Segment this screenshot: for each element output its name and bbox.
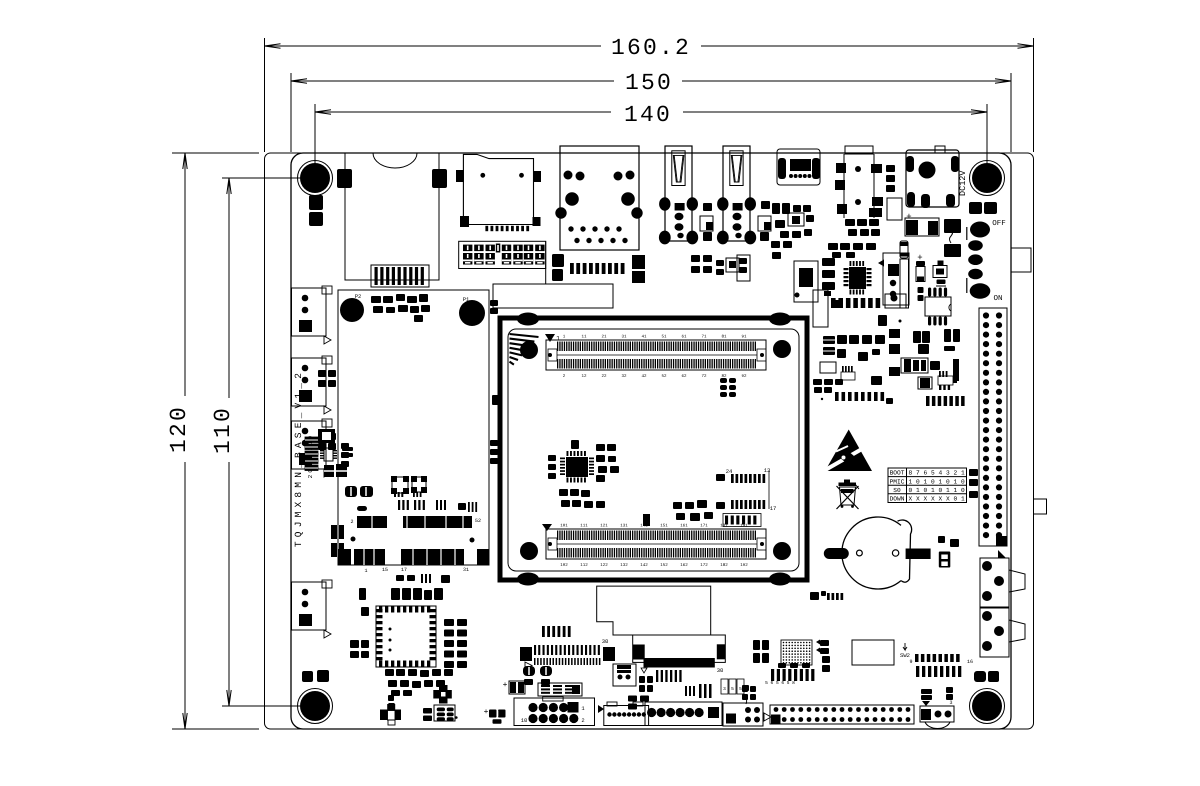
svg-text:5 6 5 6 5 8: 5 6 5 6 5 8: [765, 680, 795, 686]
pads left below micro-USB: [771, 241, 780, 248]
svg-text:0: 0: [916, 478, 920, 485]
svg-text:1: 1: [931, 487, 935, 494]
connector 6-pin bottom: [604, 706, 649, 726]
BGA U9: [781, 640, 812, 665]
svg-text:142: 142: [640, 563, 648, 568]
pads below mounting hole top-left: [309, 195, 323, 210]
pin header J21 2x17: [770, 705, 914, 724]
pads below ethernet jack: [552, 254, 564, 267]
pads above connector: [742, 686, 748, 692]
audio jack right J31: [980, 608, 1009, 657]
round pads below FFC: [523, 666, 535, 676]
WEEE bin symbol: [840, 487, 856, 505]
svg-text:171: 171: [700, 524, 708, 529]
headphone jack footprint: [845, 146, 873, 154]
svg-text:62: 62: [681, 374, 687, 379]
svg-text:11: 11: [581, 335, 587, 340]
components below headphone jack: [845, 219, 855, 226]
fiducial dots: [351, 537, 356, 542]
block with bars: [538, 683, 582, 696]
connector J14 left: [292, 582, 327, 630]
svg-text:0: 0: [931, 478, 935, 485]
battery pad left: [824, 548, 849, 559]
round pads pair: [345, 486, 357, 497]
svg-text:182: 182: [720, 563, 728, 568]
dimension 150 extension lines: [290, 73, 292, 152]
svg-text:S0: S0: [893, 487, 901, 494]
SOM corner hatch: [510, 334, 539, 337]
connector 7-pin bottom: [645, 702, 722, 726]
dimension 140 extension lines: [314, 104, 316, 172]
svg-text:172: 172: [700, 563, 708, 568]
battery pad right: [906, 549, 931, 560]
svg-text:ON: ON: [993, 294, 1002, 303]
svg-text:24: 24: [726, 468, 733, 475]
comb groups FFFF: [656, 670, 658, 682]
SOM pin1 marker: [545, 334, 555, 342]
LVDS pin comb: [644, 658, 715, 668]
pads above speaker: [921, 689, 932, 694]
svg-text:52: 52: [661, 374, 667, 379]
tall white rect near SOM: [813, 290, 828, 327]
ethernet PHY U2: [849, 267, 866, 289]
pad groups HH: [398, 500, 400, 510]
ESD warning triangle: [825, 430, 872, 472]
comb row right of SOM top: [831, 298, 836, 308]
dimension 150 line: [291, 80, 614, 82]
SOM small pad: [643, 514, 650, 526]
svg-text:181: 181: [720, 524, 728, 529]
svg-text:3: 3: [949, 700, 952, 706]
svg-text:21: 21: [601, 335, 607, 340]
pads 2x2 left of block: [423, 708, 432, 714]
vias column: [889, 329, 900, 338]
pads below B2B top: [720, 378, 727, 383]
B2B connector X2 bottom: [546, 529, 766, 559]
connector J13 left: [292, 421, 327, 469]
SOM passives right of CPU: [596, 444, 605, 451]
svg-text:152: 152: [660, 563, 668, 568]
pads below module fingers: [396, 575, 404, 581]
pads right of QFP U8: [444, 619, 454, 626]
dimension 140 line: [315, 111, 611, 113]
svg-text:5: 5: [739, 687, 742, 692]
SOM CPU U10: [566, 457, 588, 477]
B2B X2 pin marker: [542, 524, 552, 531]
svg-text:31: 31: [621, 335, 627, 340]
card edge fingers upper: [357, 516, 386, 528]
passives cluster below USB J3: [691, 255, 700, 262]
svg-text:0: 0: [954, 496, 958, 503]
components right of battery: [938, 536, 945, 543]
svg-text:102: 102: [560, 563, 568, 568]
mini-PCIe top passives: [371, 296, 381, 303]
svg-text:192: 192: [740, 563, 748, 568]
standoff P2: [340, 298, 364, 322]
svg-text:0: 0: [961, 478, 965, 485]
USB connector J3 body: [723, 146, 750, 241]
pads left column bottom: [742, 685, 749, 691]
pads right of SOM: [490, 300, 498, 306]
DIP switch SW2 pads: [915, 654, 919, 662]
SOM mounting holes: [520, 341, 538, 359]
regulator block: [901, 358, 928, 373]
svg-text:DC12V: DC12V: [958, 170, 968, 196]
pads right of U7: [342, 447, 353, 451]
regulator U11: [918, 377, 932, 389]
QFP U8: [376, 606, 436, 667]
comb row below: [926, 396, 930, 406]
svg-text:7: 7: [916, 470, 920, 477]
SOM passives bottom middle: [673, 502, 682, 509]
USB connector J3 pads: [717, 197, 728, 210]
svg-text:0: 0: [946, 478, 950, 485]
pads left of BGA: [753, 640, 760, 650]
svg-text:0: 0: [924, 487, 928, 494]
svg-text:31: 31: [463, 567, 469, 573]
svg-text:+: +: [503, 681, 508, 690]
pads left of QFP U8: [350, 640, 359, 648]
dimension 120 line: [184, 153, 186, 396]
audio jack J1 pin comb: [371, 265, 429, 287]
pads above QFP U8: [391, 588, 400, 600]
svg-text:P1: P1: [463, 296, 470, 303]
components right of USB J2: [703, 203, 712, 211]
svg-text:X: X: [931, 496, 935, 503]
svg-text:1: 1: [954, 487, 958, 494]
voltage label boxes: [721, 679, 728, 694]
svg-text:51: 51: [661, 335, 667, 340]
svg-text:2: 2: [350, 519, 353, 525]
svg-text:1: 1: [909, 478, 913, 485]
pads right of SW2: [974, 671, 986, 682]
svg-text:61: 61: [681, 335, 687, 340]
svg-text:15: 15: [382, 567, 388, 573]
caps pair: [913, 331, 921, 343]
ethernet jack RJ45 body: [560, 146, 639, 250]
dimension 120 extension lines: [172, 152, 259, 154]
passives above PHY: [828, 243, 838, 250]
standoff P1: [459, 300, 485, 326]
svg-text:151: 151: [660, 524, 668, 529]
pads right of BGA: [820, 640, 829, 646]
svg-text:32: 32: [621, 374, 627, 379]
svg-text:30: 30: [602, 638, 609, 645]
svg-text:12: 12: [581, 374, 587, 379]
dimension 160.2 line: [265, 45, 602, 47]
right edge tab: [1034, 499, 1047, 514]
big plus cap: [439, 685, 448, 704]
power switch SW1: [966, 227, 968, 240]
svg-text:22: 22: [601, 374, 607, 379]
svg-text:140: 140: [624, 102, 672, 128]
SOM passives below CPU: [559, 489, 568, 496]
svg-text:2: 2: [581, 717, 584, 724]
svg-text:1: 1: [556, 335, 560, 342]
svg-text:42: 42: [641, 374, 647, 379]
pads below BGA: [778, 663, 786, 668]
svg-text:9: 9: [909, 659, 912, 665]
svg-text:81: 81: [721, 335, 727, 340]
svg-text:X: X: [924, 496, 928, 503]
mounting hole top-left: [300, 163, 330, 193]
mini-PCIe module outline: [338, 290, 489, 565]
svg-text:4: 4: [939, 470, 943, 477]
svg-text:17: 17: [770, 505, 777, 512]
svg-text:0: 0: [961, 487, 965, 494]
svg-text:X: X: [909, 496, 913, 503]
micro-SD card socket: [463, 154, 533, 224]
LVDS connector body: [597, 586, 711, 635]
small connector with pad: [885, 294, 906, 308]
mounting hole bottom-left: [300, 691, 330, 721]
svg-text:DOWN: DOWN: [890, 496, 905, 503]
svg-text:110: 110: [210, 406, 236, 454]
cluster pads B: [820, 362, 836, 373]
cap left of block: [509, 681, 525, 694]
micro-USB connector body: [777, 149, 820, 185]
header J20 2x5: [514, 698, 595, 726]
audio jack J1 body: [345, 153, 439, 280]
dimension 160.2 extension lines: [264, 38, 266, 152]
SOM module thick frame: [500, 318, 807, 580]
svg-text:1: 1: [916, 487, 920, 494]
audio jack J1 tabs: [337, 169, 352, 188]
svg-text:0: 0: [939, 487, 943, 494]
pads below connector J14: [302, 671, 313, 682]
svg-text:5: 5: [931, 470, 935, 477]
svg-text:+: +: [906, 212, 911, 222]
boot mode table: [888, 468, 967, 503]
svg-text:3: 3: [946, 470, 950, 477]
power connector cross: [380, 710, 388, 721]
svg-text:191: 191: [740, 524, 748, 529]
connector block below micro-SD: [459, 241, 546, 268]
audio jack right J30: [980, 558, 1009, 607]
pads above 7-pin connector: [628, 696, 637, 702]
svg-text:X: X: [946, 496, 950, 503]
svg-text:41: 41: [641, 335, 647, 340]
speaker: [920, 706, 954, 722]
comb stack: [305, 437, 318, 443]
svg-text:141: 141: [640, 524, 648, 529]
svg-text:121: 121: [600, 524, 608, 529]
passives left of PHY: [822, 258, 835, 266]
connector J11 left: [292, 288, 327, 336]
svg-text:10: 10: [521, 717, 528, 724]
LVDS connector lower: [633, 635, 726, 662]
pads right of capacitor: [944, 219, 961, 233]
crystal Y1: [794, 261, 818, 302]
SOM dip pad block: [723, 514, 761, 527]
svg-text:1: 1: [961, 496, 965, 503]
power switch tab: [1011, 248, 1031, 272]
pads below-left of battery: [810, 592, 819, 600]
dimension 110 line: [228, 178, 230, 398]
svg-text:0: 0: [909, 487, 913, 494]
svg-text:162: 162: [680, 563, 688, 568]
svg-text:5: 5: [731, 687, 734, 692]
IC U7 SOIC: [324, 448, 333, 461]
pin header P5 40-pin: [979, 308, 1007, 546]
board outline: [291, 153, 1011, 729]
white connector area right of SD: [493, 284, 613, 308]
svg-text:16: 16: [967, 659, 973, 665]
svg-text:X: X: [939, 496, 943, 503]
svg-text:132: 132: [620, 563, 628, 568]
B2B connector X1 top: [546, 340, 766, 370]
pad ring: [318, 429, 335, 443]
svg-text:91: 91: [741, 335, 747, 340]
components below micro-USB: [772, 203, 780, 214]
white box SIM: [852, 640, 894, 665]
pads 2x2: [639, 676, 645, 683]
svg-text:TQJMX8MN_BASE_V1_2: TQJMX8MN_BASE_V1_2: [293, 369, 304, 547]
pad blocks 2x2: [324, 465, 334, 477]
USB connector J2 body: [665, 146, 692, 241]
svg-text:P2: P2: [355, 293, 362, 300]
ethernet jack RJ45 pads: [564, 171, 573, 180]
svg-text:30: 30: [717, 667, 724, 674]
components right of USB J3: [761, 201, 770, 209]
svg-text:BOOT: BOOT: [890, 470, 905, 477]
battery holder BT1: [842, 517, 901, 589]
card edge fingers lower: [338, 549, 351, 565]
svg-text:1: 1: [924, 478, 928, 485]
connector J12 left: [292, 358, 327, 406]
FFC connector 30-pin: [520, 647, 532, 661]
svg-text:1: 1: [946, 487, 950, 494]
svg-text:122: 122: [600, 563, 608, 568]
small connector below LVDS: [613, 664, 636, 686]
micro-SD pin comb: [485, 226, 488, 231]
svg-text:6: 6: [924, 470, 928, 477]
cluster pads A: [823, 336, 835, 344]
svg-text:3: 3: [723, 686, 726, 692]
svg-text:8: 8: [909, 470, 913, 477]
crystal footprint left: [900, 241, 908, 258]
svg-text:+: +: [484, 708, 489, 717]
svg-text:92: 92: [741, 374, 747, 379]
svg-text:X: X: [916, 496, 920, 503]
comb row: [835, 392, 839, 401]
svg-text:52: 52: [475, 518, 481, 524]
input capacitor C1: [905, 218, 939, 236]
tall white rect: [900, 259, 909, 308]
svg-text:111: 111: [580, 524, 588, 529]
SOM pcb outline: [508, 329, 799, 571]
svg-text:150: 150: [625, 70, 673, 96]
svg-text:1: 1: [939, 478, 943, 485]
svg-text:PMIC: PMIC: [890, 478, 905, 485]
pin header P5 pin1 pad: [996, 536, 1007, 546]
svg-text:SW2: SW2: [900, 652, 910, 659]
svg-text:2: 2: [954, 470, 958, 477]
pads below mounting hole top-right: [969, 202, 982, 214]
connector J4 4-pin: [883, 253, 909, 305]
SOM frame mounting ovals: [517, 313, 539, 326]
svg-text:112: 112: [580, 563, 588, 568]
flash U3 SOIC-8: [925, 297, 951, 316]
IC U6: [412, 477, 426, 492]
6-pad block: [434, 705, 455, 721]
svg-text:1: 1: [961, 470, 965, 477]
svg-text:17: 17: [401, 567, 407, 573]
svg-text:131: 131: [620, 524, 628, 529]
pads right of boot table: [969, 469, 978, 476]
svg-text:1: 1: [954, 478, 958, 485]
svg-text:120: 120: [166, 405, 192, 453]
pads below QFP U8: [385, 669, 394, 676]
svg-text:160.2: 160.2: [611, 35, 691, 61]
outer max-extent outline: [265, 153, 1034, 729]
svg-text:OFF: OFF: [992, 219, 1006, 228]
SOM passives left of CPU: [548, 455, 556, 461]
mounting hole top-right: [972, 163, 1002, 193]
svg-text:1: 1: [364, 568, 367, 574]
mounting hole bottom-right: [972, 691, 1002, 721]
svg-text:161: 161: [680, 524, 688, 529]
bars left of module bottom: [331, 525, 337, 539]
comb HHHHH: [542, 626, 545, 637]
USB connector J2 pads: [659, 197, 670, 210]
svg-text:101: 101: [560, 524, 568, 529]
svg-text:72: 72: [701, 374, 707, 379]
connector small bottom: [723, 703, 763, 726]
IC U5: [392, 477, 408, 493]
DC power jack: [906, 150, 959, 207]
svg-text:71: 71: [701, 335, 707, 340]
mini-PCIe left passives: [341, 443, 349, 449]
dimension 110 extension lines: [222, 177, 300, 179]
